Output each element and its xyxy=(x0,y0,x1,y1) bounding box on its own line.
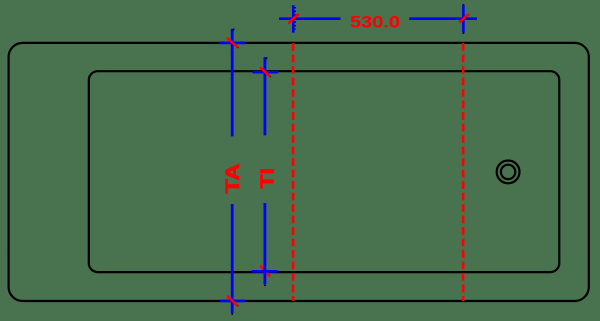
dimension TI extension line top xyxy=(253,71,279,74)
drain inner circle xyxy=(501,165,515,179)
black end dot TA bottom xyxy=(231,313,233,314)
bathtub outer outline xyxy=(9,43,589,301)
dimension TI extension line bottom xyxy=(252,270,278,273)
oblique tick left of 530.0 xyxy=(289,14,299,24)
dimension 530.0 line left segment xyxy=(279,17,341,20)
svg-text:TA: TA xyxy=(222,164,244,194)
dimension TA extension line bottom xyxy=(220,300,246,303)
centerline right (red dashed) xyxy=(462,43,465,301)
bathtub inner basin outline xyxy=(89,71,560,272)
black node dot TA top tip xyxy=(233,29,235,31)
oblique tick TI bottom (under dimension line) xyxy=(260,266,270,277)
dimension 530.0 extension line left xyxy=(292,5,295,33)
dimension TA line lower segment xyxy=(231,204,234,313)
oblique tick right of 530.0 xyxy=(460,15,469,23)
dimension TI line lower segment xyxy=(263,203,266,285)
oblique tick TA top xyxy=(228,38,239,48)
dimension TA extension line top xyxy=(219,42,245,45)
dimension 530.0 extension line right xyxy=(462,5,465,33)
black end dots right extension xyxy=(462,4,464,5)
svg-text:530.0: 530.0 xyxy=(350,13,400,32)
black node dot TI top tip xyxy=(265,57,267,59)
dimension TA line upper segment xyxy=(231,29,234,137)
drain outer circle xyxy=(497,161,520,184)
dimension 530.0 line right segment xyxy=(409,17,477,20)
oblique tick TI top xyxy=(261,68,271,77)
centerline left (red dashed) xyxy=(292,43,295,301)
black dotted mark beside left extension xyxy=(294,7,296,30)
dimension TI line upper segment xyxy=(263,57,266,135)
svg-text:TI: TI xyxy=(257,168,278,189)
oblique tick TA bottom xyxy=(228,296,239,306)
black end dot TI bottom xyxy=(264,285,266,286)
